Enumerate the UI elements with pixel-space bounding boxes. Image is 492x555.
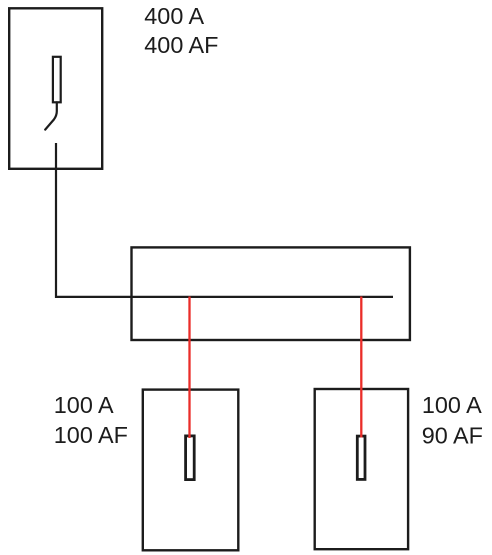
svg-text:100 A: 100 A [422,392,482,418]
wire: switch output down and right to bus [56,143,393,297]
fuse body F1 [53,57,61,103]
red feeder wire to left branch [188,297,190,439]
left branch fuse body [186,436,195,480]
svg-text:90 AF: 90 AF [422,423,483,449]
switch blade [45,102,57,129]
main fused switch enclosure (400 A) [9,8,102,169]
left branch box (100 A / 100 AF) [143,390,239,551]
svg-text:100 AF: 100 AF [54,422,128,448]
right branch fuse body [357,436,365,479]
panelboard rectangle [132,247,410,340]
red feeder wire to right branch [360,297,362,438]
svg-text:400 AF: 400 AF [144,32,218,58]
svg-text:400 A: 400 A [144,3,204,29]
svg-text:100 A: 100 A [54,392,114,418]
right branch box (100 A / 90 AF) [315,389,408,549]
